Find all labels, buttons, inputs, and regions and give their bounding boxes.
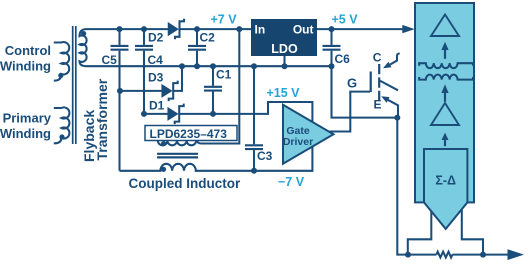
svg-text:C5: C5 [102, 53, 118, 67]
node C6 top [329, 26, 335, 32]
capacitor C4 [143, 29, 145, 45]
diode D2 [168, 23, 178, 36]
svg-text:D3: D3 [148, 70, 164, 84]
sigma-delta modulator [424, 149, 467, 229]
IGBT body diagonal [380, 81, 398, 91]
svg-text:LPD6235–473: LPD6235–473 [150, 127, 228, 141]
rf transformer bottom winding [419, 75, 473, 80]
node C2 top [194, 26, 200, 32]
primary winding phase dot [59, 134, 64, 139]
capacitor C6 [330, 29, 332, 45]
node emitter [394, 115, 400, 121]
svg-text:Winding: Winding [0, 126, 51, 141]
up arrow 2 [444, 93, 446, 102]
svg-text:+5 V: +5 V [332, 13, 359, 27]
arrow into block [402, 25, 415, 33]
svg-text:C3: C3 [257, 149, 273, 163]
node C4 top [141, 26, 147, 32]
svg-text:Transformer: Transformer [94, 78, 110, 160]
emitter common wire [332, 66, 398, 117]
rf transformer top winding [419, 63, 473, 68]
node right leg [480, 252, 486, 258]
svg-text:C4: C4 [148, 53, 164, 67]
top rail +7V net [87, 28, 252, 30]
node C1 top [210, 63, 216, 69]
IGBT collector lead [390, 54, 400, 65]
svg-text:In: In [255, 23, 266, 37]
capacitor C1 [212, 66, 214, 86]
secondary winding phase dot [81, 31, 86, 36]
node D3 cathode [179, 63, 185, 69]
coupled inductor core [157, 153, 198, 155]
+5V rail [317, 28, 403, 30]
sigma-delta legs [408, 206, 432, 255]
up arrow 3 [444, 140, 446, 146]
resistor R [436, 252, 452, 258]
diode D3 [120, 90, 162, 92]
primary winding label [0, 111, 52, 141]
svg-text:Driver: Driver [283, 136, 313, 148]
node C6 bottom [329, 63, 335, 69]
secondary winding [80, 29, 87, 66]
svg-text:Σ-Δ: Σ-Δ [435, 174, 456, 188]
common wire y66 [87, 65, 332, 67]
node C5 top [117, 26, 123, 32]
IGBT gate bar [370, 72, 372, 93]
IGBT emitter lead [381, 96, 389, 103]
node C3 bottom [251, 168, 257, 174]
transformer core [72, 26, 74, 144]
flyback transformer label [81, 78, 110, 162]
emitter down wire [397, 118, 436, 255]
IGBT channel bar [378, 64, 380, 101]
LPD6235-473 box [145, 126, 237, 141]
svg-text:D2: D2 [148, 30, 164, 44]
node D1 anode / C4 [141, 111, 147, 117]
control winding label [0, 43, 51, 74]
svg-text:Control: Control [5, 43, 51, 58]
primary winding coil [54, 107, 70, 143]
up arrow 1 [444, 50, 446, 59]
svg-text:D1: D1 [149, 98, 165, 112]
control winding phase dot [58, 73, 63, 78]
node +7V [236, 26, 242, 32]
svg-text:E: E [374, 98, 382, 112]
node C2 bottom [194, 63, 200, 69]
control winding coil [54, 42, 69, 81]
+7V vertical to coupled inductor [197, 29, 240, 143]
svg-text:C1: C1 [216, 68, 232, 82]
svg-text:+7 V: +7 V [211, 13, 238, 27]
svg-text:Winding: Winding [0, 58, 51, 73]
svg-text:Coupled Inductor: Coupled Inductor [129, 176, 241, 191]
capacitor C3 [253, 66, 255, 144]
svg-text:C2: C2 [200, 30, 216, 44]
bottom rail to arrow [452, 254, 507, 256]
isolated amplifier block [415, 3, 474, 202]
svg-text:C6: C6 [335, 52, 351, 66]
node LDO gnd [282, 63, 288, 69]
capacitor C2 [196, 29, 198, 45]
svg-text:C: C [373, 51, 382, 65]
LDO gnd stub [283, 56, 285, 66]
svg-text:G: G [347, 76, 357, 91]
capacitor C5 [118, 29, 120, 45]
coupled inductor top winding [158, 141, 196, 146]
node C1 bottom [210, 111, 216, 117]
node D3 anode / C5 [117, 88, 123, 94]
svg-text:Primary: Primary [3, 111, 52, 126]
diode D1 [144, 113, 168, 115]
node left leg [405, 252, 411, 258]
svg-text:Out: Out [293, 23, 314, 37]
LDO block [251, 19, 317, 56]
gate driver triangle [283, 105, 334, 164]
svg-text:−7 V: −7 V [278, 175, 305, 189]
svg-text:+15 V: +15 V [267, 86, 301, 100]
coupled inductor bottom winding and -7V rail [120, 140, 313, 171]
amp triangle 2 [431, 103, 459, 125]
svg-text:LDO: LDO [271, 42, 298, 56]
gate driver output wire to G [330, 92, 371, 132]
node C3 top [251, 63, 257, 69]
amp triangle 1 [431, 15, 459, 37]
